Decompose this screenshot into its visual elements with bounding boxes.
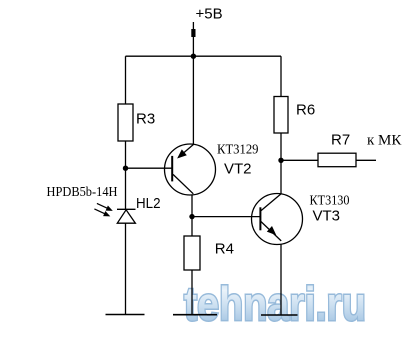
wire R7 to MK stub xyxy=(356,159,376,161)
resistor R4 xyxy=(184,236,200,270)
wire VT3 emitter to ground xyxy=(280,244,282,315)
wire right branch upper xyxy=(280,56,282,96)
node C (R6 / R7 / VT3 collector) xyxy=(278,158,283,163)
ground (middle, R4) xyxy=(173,314,217,316)
wire node D to VT3 base xyxy=(192,216,260,218)
resistor R6 xyxy=(274,97,288,134)
svg-text:к МК: к МК xyxy=(367,133,402,149)
svg-text:tehnari.ru: tehnari.ru xyxy=(184,277,366,330)
svg-text:КТ3129: КТ3129 xyxy=(217,142,259,157)
svg-text:R4: R4 xyxy=(215,241,234,258)
wire top rail xyxy=(126,55,282,57)
svg-text:+5В: +5В xyxy=(196,6,223,23)
wire R6 to node C xyxy=(280,133,282,194)
ground (right, VT3) xyxy=(261,314,298,316)
wire +5V feed xyxy=(192,22,194,56)
wire R4 to ground xyxy=(191,270,193,315)
node D (VT2 collector / VT3 base / R4) xyxy=(189,214,194,219)
power bar on +5V feed xyxy=(191,29,195,37)
transistor VT3 xyxy=(252,194,303,245)
watermark tehnari.ru xyxy=(184,277,366,330)
wire R3 to node B2 xyxy=(125,141,127,209)
wire node D to R4 xyxy=(191,217,193,236)
transistor VT2 xyxy=(165,144,216,195)
photodiode HL2 xyxy=(117,209,136,223)
svg-text:R6: R6 xyxy=(296,102,315,119)
resistor R3 xyxy=(118,104,133,141)
svg-text:КТ3130: КТ3130 xyxy=(310,194,350,209)
wire HL2 to ground xyxy=(125,223,127,314)
wire VT2 base wire xyxy=(126,167,172,169)
node A (rail junction) xyxy=(191,54,196,59)
ground (left, HL2) xyxy=(106,314,145,316)
svg-text:HPDB5b-14H: HPDB5b-14H xyxy=(47,185,118,200)
wire left branch upper xyxy=(125,56,127,104)
svg-text:VT3: VT3 xyxy=(313,208,341,225)
resistor R7 xyxy=(318,153,356,167)
svg-text:R7: R7 xyxy=(331,132,350,149)
light arrow 1 xyxy=(97,203,113,211)
light arrow 2 xyxy=(94,209,110,217)
wire VT2 collector to node D xyxy=(191,195,193,217)
wire node C to R7 xyxy=(281,159,318,161)
node B (R3 / VT2 base / HL2) xyxy=(123,166,128,171)
svg-text:R3: R3 xyxy=(136,111,155,128)
svg-text:HL2: HL2 xyxy=(136,195,161,212)
wire VT2 emitter feed xyxy=(192,56,194,145)
svg-text:VT2: VT2 xyxy=(224,160,252,177)
